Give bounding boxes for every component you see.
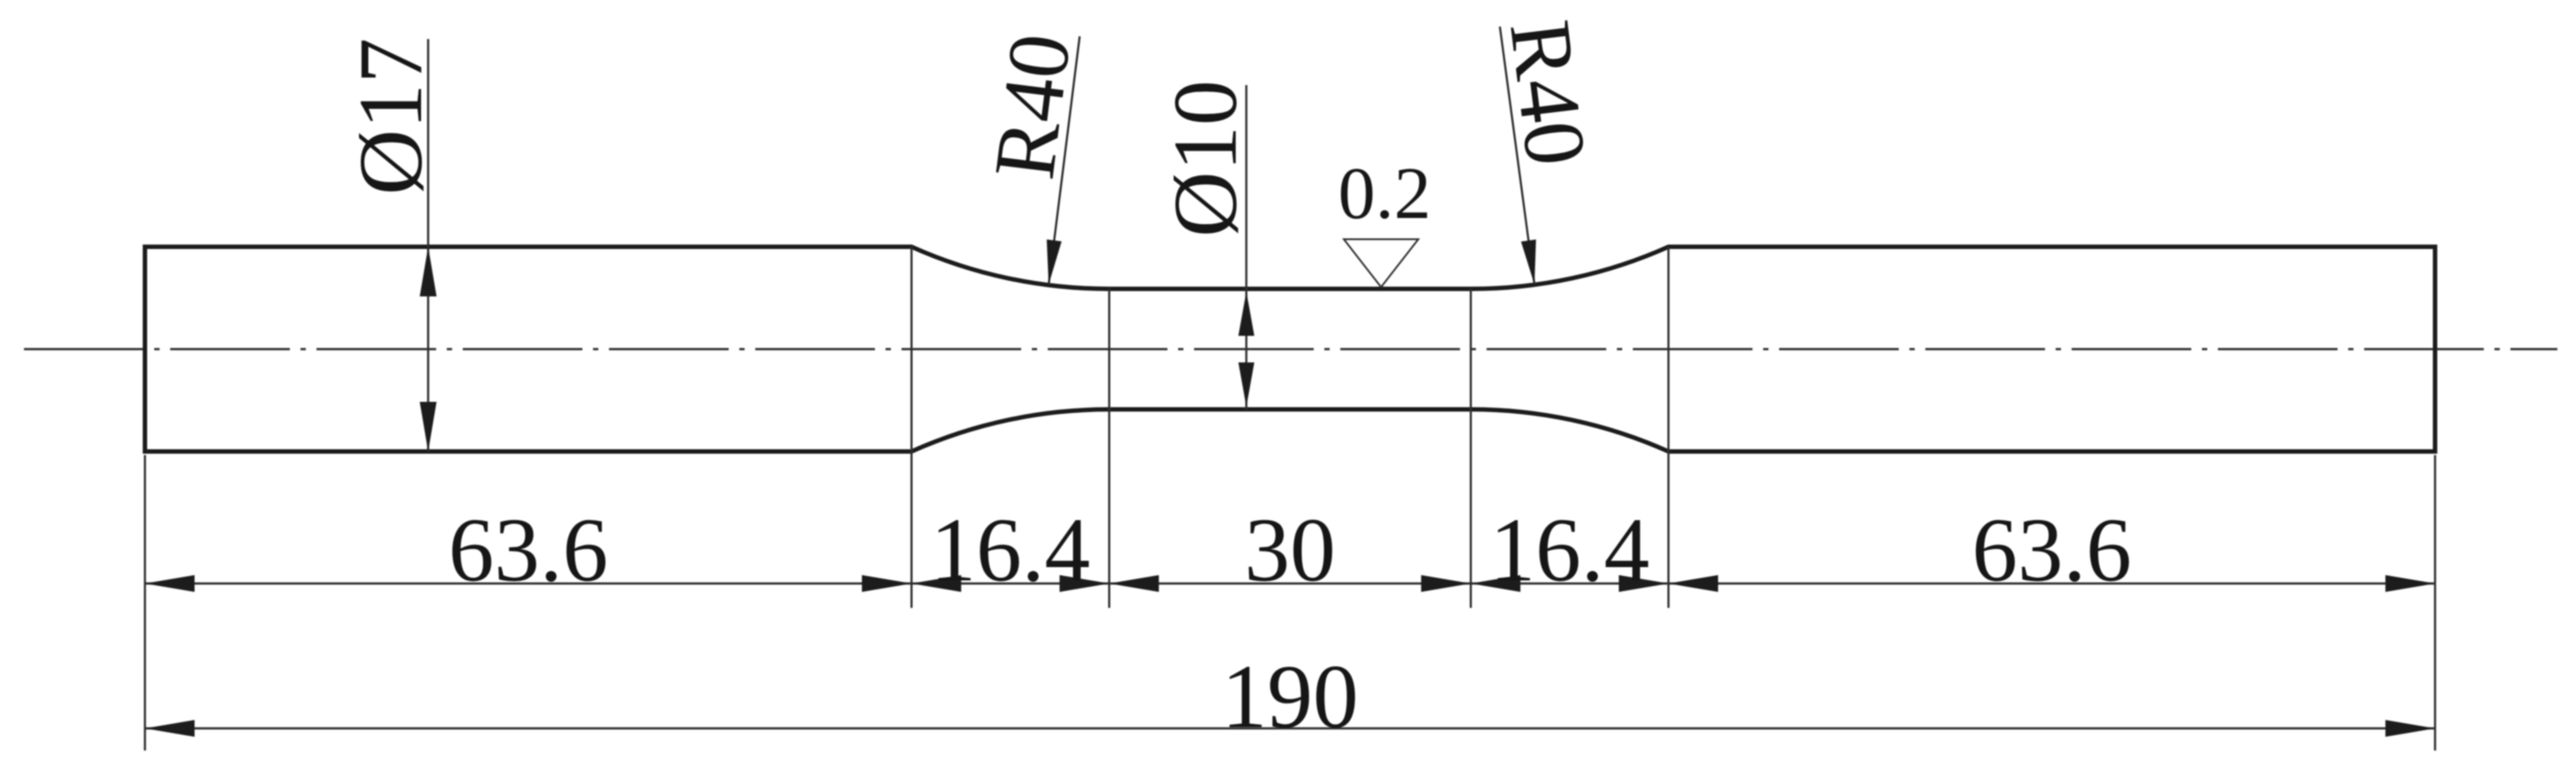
dimension line for diameter 17 bbox=[427, 39, 429, 452]
dimension line row 2 (190 overall) bbox=[145, 727, 2436, 729]
leader line right R40 bbox=[1500, 27, 1534, 284]
extension line at x0 (left end) bbox=[144, 455, 145, 751]
specimen outline (dog-bone tensile bar) bbox=[145, 247, 2436, 452]
svg-text:63.6: 63.6 bbox=[449, 500, 608, 601]
svg-text:30: 30 bbox=[1245, 500, 1336, 601]
svg-text:Ø10: Ø10 bbox=[1155, 80, 1256, 237]
extension line at x3 (gauge end) bbox=[1470, 289, 1471, 608]
svg-text:0.2: 0.2 bbox=[1339, 152, 1432, 235]
svg-text:R40: R40 bbox=[977, 28, 1089, 183]
dimension line for diameter 10 bbox=[1245, 85, 1247, 409]
svg-text:16.4: 16.4 bbox=[1490, 500, 1650, 601]
extension line at x5 (right end) bbox=[2434, 455, 2436, 751]
svg-text:Ø17: Ø17 bbox=[340, 38, 441, 195]
extension line at x4 (fillet end) bbox=[1667, 247, 1669, 609]
leader line left R40 bbox=[1049, 36, 1080, 284]
svg-text:63.6: 63.6 bbox=[1971, 500, 2131, 601]
svg-text:16.4: 16.4 bbox=[931, 500, 1090, 601]
extension line at x1 (fillet start) bbox=[910, 247, 912, 609]
dimension line row 1 (63.6 / 16.4 / 30 / 16.4 / 63.6) bbox=[145, 582, 2436, 584]
extension line at x2 (gauge start) bbox=[1108, 289, 1110, 608]
surface finish symbol (0.2 triangle) bbox=[1344, 239, 1418, 287]
svg-text:190: 190 bbox=[1222, 647, 1359, 748]
svg-text:R40: R40 bbox=[1491, 15, 1604, 170]
centerline (dash-dot axis) bbox=[24, 348, 2557, 350]
row 1 arrowheads bbox=[145, 575, 195, 592]
row 2 arrowheads bbox=[145, 720, 195, 737]
